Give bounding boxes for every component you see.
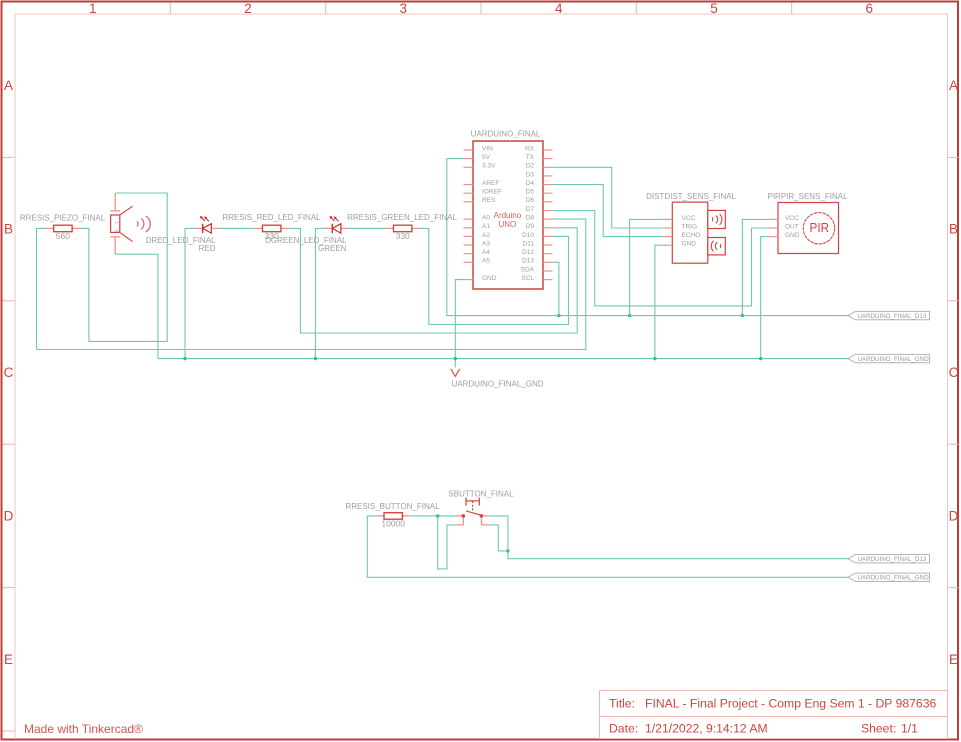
svg-text:UARDUINO_FINAL_GND: UARDUINO_FINAL_GND xyxy=(858,575,930,582)
svg-text:SCL: SCL xyxy=(521,275,534,282)
resistor RRESIS_GREEN_LED_FINAL body xyxy=(394,225,412,232)
svg-text:UARDUINO_FINAL_D13: UARDUINO_FINAL_D13 xyxy=(858,556,927,563)
svg-text:Arduino: Arduino xyxy=(494,211,522,220)
resistor RRESIS_PIEZO_FINAL pins xyxy=(45,227,53,229)
junction: distance sensor VCC on 5V net xyxy=(628,314,631,317)
svg-text:D2: D2 xyxy=(526,163,535,170)
distance sensor body xyxy=(672,202,708,263)
svg-text:1: 1 xyxy=(89,1,97,16)
button SBUTTON_FINAL xyxy=(448,490,514,525)
svg-text:VCC: VCC xyxy=(682,215,696,222)
offpage connector UARDUINO_FINAL_D13 (top) xyxy=(848,311,930,320)
svg-text:D4: D4 xyxy=(526,180,535,187)
wire piezo bottom to gnd bus xyxy=(115,254,158,358)
svg-text:Title:: Title: xyxy=(609,697,635,711)
pushbutton terminal pins xyxy=(456,516,490,525)
wire bus D8 net y=349.5 xyxy=(37,219,586,349)
PIR sensor pin labels xyxy=(785,215,800,239)
svg-text:OUT: OUT xyxy=(785,223,799,230)
distance sensor DISTDIST_SENS_FINAL xyxy=(646,192,736,263)
svg-text:A2: A2 xyxy=(482,232,490,239)
svg-text:ECHO: ECHO xyxy=(682,232,701,239)
junction: arduino GND on GND bus xyxy=(454,357,457,360)
svg-text:3: 3 xyxy=(400,1,408,16)
wire D7 to PIR out xyxy=(553,211,769,306)
svg-text:C: C xyxy=(949,365,959,380)
svg-text:Made with Tinkercad®: Made with Tinkercad® xyxy=(24,722,143,736)
svg-text:IOREF: IOREF xyxy=(482,189,502,196)
wire green resistor to D10 xyxy=(420,228,568,324)
wire dist gnd drop xyxy=(655,245,664,358)
svg-text:1/1: 1/1 xyxy=(901,722,918,736)
pushbutton contact dots xyxy=(462,514,466,518)
LED DRED_LED_FINAL emission arrows xyxy=(201,217,209,221)
resistor RRESIS_RED_LED_FINAL xyxy=(222,213,321,241)
svg-text:PIRPIR_SENS_FINAL: PIRPIR_SENS_FINAL xyxy=(767,192,848,201)
distance sensor transmitter xyxy=(708,210,726,228)
wire arduino gnd drop xyxy=(455,280,463,368)
resistor RRESIS_GREEN_LED_FINAL xyxy=(347,213,457,241)
svg-text:5V: 5V xyxy=(482,154,491,161)
svg-text:UARDUINO_FINAL: UARDUINO_FINAL xyxy=(471,129,541,138)
arduino UARDUINO_FINAL xyxy=(464,129,553,289)
svg-text:D5: D5 xyxy=(526,189,535,196)
LED DGREEN_LED_FINAL triangle xyxy=(332,224,341,233)
svg-text:GREEN: GREEN xyxy=(318,244,347,253)
wire dist vcc drop xyxy=(630,219,664,315)
wire green led to resistor xyxy=(349,227,385,229)
arduino UNO U1 body xyxy=(473,141,543,289)
svg-text:A: A xyxy=(4,78,13,93)
svg-text:B: B xyxy=(4,222,13,237)
offpage connector UARDUINO_FINAL_GND (bottom) xyxy=(848,573,930,582)
svg-text:E: E xyxy=(949,652,958,667)
wire pir gnd drop xyxy=(761,237,769,359)
led DGREEN_LED_FINAL xyxy=(265,216,349,253)
wire red led to resistor xyxy=(219,227,254,229)
pir sensor PIRPIR_SENS_FINAL xyxy=(767,192,848,254)
arduino right pin labels xyxy=(521,145,535,282)
wire button lower-right U xyxy=(489,525,508,551)
offpage connector UARDUINO_FINAL_GND (top) xyxy=(848,354,930,363)
junction: button upper-left terminal to resistor xyxy=(436,514,439,517)
svg-text:RES: RES xyxy=(482,197,496,204)
svg-text:RRESIS_GREEN_LED_FINAL: RRESIS_GREEN_LED_FINAL xyxy=(347,213,457,222)
svg-text:Sheet:: Sheet: xyxy=(861,722,896,736)
pushbutton SBUTTON_FINAL cap and lever xyxy=(465,498,481,516)
svg-text:3.3V: 3.3V xyxy=(482,163,496,170)
distance sensor pin labels xyxy=(682,215,701,248)
junction: button right terminals join xyxy=(506,549,509,552)
svg-text:UARDUINO_FINAL_GND: UARDUINO_FINAL_GND xyxy=(452,379,544,388)
junction: green LED cathode on GND bus xyxy=(314,357,317,360)
svg-text:C: C xyxy=(4,365,14,380)
wire pir vcc drop xyxy=(742,219,768,315)
svg-text:D8: D8 xyxy=(526,215,535,222)
svg-text:RX: RX xyxy=(525,145,535,152)
PIR sensor pin stubs xyxy=(768,219,778,236)
svg-text:D13: D13 xyxy=(522,258,534,265)
svg-text:2: 2 xyxy=(244,1,252,16)
svg-text:TRIG: TRIG xyxy=(682,223,698,230)
wire gnd bus xyxy=(158,358,848,360)
PIR sensor body xyxy=(778,203,839,254)
svg-text:560: 560 xyxy=(56,231,70,241)
svg-text:SDA: SDA xyxy=(521,266,535,273)
LED DGREEN_LED_FINAL emission arrows xyxy=(331,217,339,221)
svg-text:6: 6 xyxy=(866,1,874,16)
svg-text:FINAL - Final Project - Comp E: FINAL - Final Project - Comp Eng Sem 1 -… xyxy=(645,697,936,711)
svg-text:D9: D9 xyxy=(526,223,535,230)
svg-text:10000: 10000 xyxy=(381,518,405,528)
LED DRED_LED_FINAL pins xyxy=(194,227,202,229)
svg-text:UARDUINO_FINAL_D13: UARDUINO_FINAL_D13 xyxy=(858,313,927,320)
svg-text:PIR: PIR xyxy=(810,221,830,235)
svg-text:B: B xyxy=(949,222,958,237)
svg-text:RED: RED xyxy=(199,244,216,253)
svg-text:UARDUINO_FINAL_GND: UARDUINO_FINAL_GND xyxy=(858,356,930,363)
svg-text:TX: TX xyxy=(526,154,535,161)
LED DGREEN_LED_FINAL pins xyxy=(324,227,332,229)
svg-text:A: A xyxy=(949,78,958,93)
PIR sensor lens circle xyxy=(803,213,834,244)
wire green led left drop xyxy=(315,227,324,229)
resistor RRESIS_GREEN_LED_FINAL pins xyxy=(385,227,393,229)
junction: PIR VCC on 5V net xyxy=(741,314,744,317)
svg-text:E: E xyxy=(4,652,13,667)
svg-text:D7: D7 xyxy=(526,206,535,213)
wire button resistor left to gnd connector xyxy=(367,516,848,577)
piezo buzzer DPIEZO_FINAL xyxy=(110,193,150,254)
distance sensor pin stubs xyxy=(664,219,672,245)
wire R560 right to piezo top xyxy=(81,193,168,341)
svg-text:RRESIS_PIEZO_FINAL: RRESIS_PIEZO_FINAL xyxy=(20,213,106,222)
svg-text:DISTDIST_SENS_FINAL: DISTDIST_SENS_FINAL xyxy=(646,192,736,201)
svg-text:2: 2 xyxy=(114,229,120,232)
svg-text:GND: GND xyxy=(682,241,697,248)
wire piezo resistor left down xyxy=(37,228,46,349)
distance sensor receiver xyxy=(708,238,726,255)
svg-text:A3: A3 xyxy=(482,240,490,247)
svg-text:UNO: UNO xyxy=(499,220,517,229)
LED DRED_LED_FINAL cathode bar xyxy=(202,224,204,233)
resistor RRESIS_BUTTON_FINAL pins xyxy=(376,515,384,517)
svg-text:D: D xyxy=(4,508,14,523)
wire button resistor right to button xyxy=(411,515,456,517)
svg-text:1/21/2022, 9:14:12 AM: 1/21/2022, 9:14:12 AM xyxy=(645,722,768,736)
ground net marker UARDUINO_FINAL_GND xyxy=(451,369,544,388)
wire 5V net to connector D13 xyxy=(447,159,848,316)
wire button upper-right to D13 connector xyxy=(490,516,848,559)
svg-text:D11: D11 xyxy=(523,240,535,247)
svg-text:Date:: Date: xyxy=(609,722,638,736)
offpage connector UARDUINO_FINAL_D13 (bottom) xyxy=(848,555,930,564)
svg-text:330: 330 xyxy=(396,231,410,241)
resistor RRESIS_RED_LED_FINAL pins xyxy=(254,227,262,229)
resistor RRESIS_BUTTON_FINAL body xyxy=(384,513,402,520)
junction: distance sensor GND on GND bus xyxy=(653,357,656,360)
svg-text:5: 5 xyxy=(710,1,718,16)
svg-text:A4: A4 xyxy=(482,249,490,256)
svg-text:1: 1 xyxy=(114,221,120,224)
arduino pin stubs xyxy=(464,150,553,280)
svg-text:RRESIS_BUTTON_FINAL: RRESIS_BUTTON_FINAL xyxy=(345,502,440,511)
LED DRED_LED_FINAL triangle xyxy=(203,224,212,233)
svg-text:RRESIS_RED_LED_FINAL: RRESIS_RED_LED_FINAL xyxy=(222,213,321,222)
resistor RRESIS_PIEZO_FINAL body xyxy=(54,225,72,232)
svg-text:VCC: VCC xyxy=(785,215,799,222)
arduino left pin labels xyxy=(482,145,502,282)
svg-text:AREF: AREF xyxy=(482,180,499,187)
wire red resistor to D9 xyxy=(289,228,577,333)
junction dots xyxy=(183,314,762,553)
junction: red LED cathode on GND bus xyxy=(183,357,186,360)
svg-text:VIN: VIN xyxy=(482,145,493,152)
junction: PIR GND on GND bus xyxy=(759,357,762,360)
svg-text:GND: GND xyxy=(482,275,497,282)
wire D13 drop xyxy=(553,262,559,315)
svg-text:4: 4 xyxy=(555,1,563,16)
wire red led left drop xyxy=(185,228,194,358)
svg-text:SBUTTON_FINAL: SBUTTON_FINAL xyxy=(448,490,514,499)
svg-text:D6: D6 xyxy=(526,197,535,204)
svg-text:D12: D12 xyxy=(522,249,534,256)
led DRED_LED_FINAL xyxy=(146,216,220,253)
svg-text:D: D xyxy=(949,508,959,523)
resistor RRESIS_PIEZO_FINAL xyxy=(20,213,106,240)
resistor RRESIS_BUTTON_FINAL xyxy=(345,502,440,528)
title block xyxy=(600,691,948,739)
svg-text:D10: D10 xyxy=(522,232,534,239)
svg-text:D3: D3 xyxy=(526,171,535,178)
resistor RRESIS_RED_LED_FINAL body xyxy=(263,225,281,232)
wire D2 to TRIG xyxy=(553,167,664,228)
LED DGREEN_LED_FINAL cathode bar xyxy=(331,224,333,233)
wire D4 to ECHO xyxy=(553,185,664,237)
svg-text:GND: GND xyxy=(785,232,800,239)
svg-text:A1: A1 xyxy=(482,223,490,230)
junction: D13 on 5V net xyxy=(557,314,560,317)
wire button upper-left drop U xyxy=(438,516,457,569)
svg-text:A5: A5 xyxy=(482,258,490,265)
svg-text:A0: A0 xyxy=(482,215,490,222)
